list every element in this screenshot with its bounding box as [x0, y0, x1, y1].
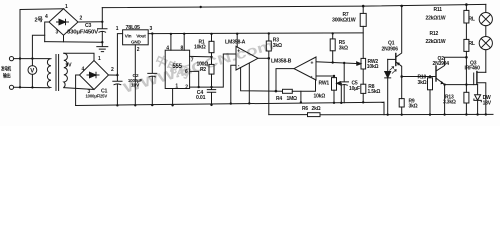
wire 555 pin2/6 node to opamp A input [199, 54, 236, 87]
resistor R12 22k/1W [464, 39, 469, 51]
svg-text:1: 1 [175, 84, 178, 90]
wire bridge2 pin2 to C1 node [109, 74, 118, 76]
capacitor C4 0.01 [207, 87, 215, 105]
svg-text:R12: R12 [430, 31, 439, 37]
resistor R3 3k [266, 41, 271, 51]
diode inside bridge2 [87, 72, 99, 78]
svg-text:3.3kΩ: 3.3kΩ [443, 100, 456, 106]
svg-text:6: 6 [185, 69, 188, 75]
transformer T1 secondary [64, 53, 68, 87]
opamp A V- stub [248, 63, 250, 103]
svg-text:4: 4 [45, 14, 48, 20]
wire opamp A output [258, 57, 269, 59]
capacitor C3 330uF/450V [98, 22, 108, 42]
op-amp U1A LM358-A [236, 46, 258, 70]
wire opamp A lower input to ground [231, 65, 236, 103]
svg-text:2N3906: 2N3906 [382, 46, 399, 52]
wire voltmeter bottom [31, 74, 33, 87]
ground rail upper [76, 102, 384, 105]
opamp A V+ stub [236, 34, 238, 47]
svg-text:1000μF/25V: 1000μF/25V [86, 93, 108, 99]
svg-text:RW1: RW1 [319, 80, 330, 86]
svg-text:555: 555 [172, 64, 182, 70]
svg-text:2: 2 [137, 47, 140, 53]
R6 loop lower wire left [269, 114, 308, 116]
wire x20 vertical to bridge1 [20, 9, 64, 88]
op-amp U1B LM358-B (points left) [294, 57, 316, 80]
voltmeter V [28, 66, 37, 75]
svg-text:10kΩ: 10kΩ [194, 44, 206, 50]
svg-text:10V: 10V [131, 82, 140, 88]
capacitor C1 1000uF/25V [113, 74, 122, 106]
svg-text:10μF: 10μF [349, 86, 360, 92]
svg-text:R11: R11 [434, 7, 443, 13]
Q1 base wire [388, 58, 396, 60]
feedback line to R4 [241, 68, 283, 92]
svg-text:+: + [311, 60, 314, 66]
svg-text:1: 1 [65, 4, 68, 10]
svg-text:V: V [30, 68, 34, 74]
junction dots x20 [19, 57, 21, 59]
svg-text:10kΩ: 10kΩ [367, 64, 379, 70]
arrowhead into RW2 [357, 62, 361, 65]
regulator U2 78L05 [123, 30, 149, 45]
resistor R4 1M [283, 89, 293, 93]
svg-text:22kΩ/1W: 22kΩ/1W [426, 15, 446, 21]
wire opamp B upper input to RW2 wiper [316, 62, 358, 64]
svg-text:2: 2 [185, 84, 188, 90]
svg-text:C2: C2 [133, 73, 139, 79]
svg-text:LM358-B: LM358-B [271, 59, 292, 65]
resistor R10 3k [428, 78, 433, 90]
Q3 source tap [477, 83, 486, 115]
svg-text:LM358-A: LM358-A [225, 39, 246, 45]
wire zigzag bridge1 AC2 to top terminal [32, 35, 44, 58]
ground symbol [97, 42, 108, 51]
top rail [102, 4, 486, 7]
svg-text:RL: RL [469, 17, 475, 23]
transformer T1 primary [47, 59, 51, 88]
svg-text:2: 2 [80, 15, 83, 21]
svg-text:2kΩ: 2kΩ [312, 106, 321, 112]
svg-text:300kΩ/1W: 300kΩ/1W [332, 18, 356, 24]
Q3 drain tap [477, 71, 486, 73]
bridge rectifier B2 [80, 61, 109, 90]
svg-text:R2: R2 [200, 67, 206, 73]
svg-text:+: + [237, 49, 240, 55]
ground rail step down [383, 102, 385, 114]
terminal J1 generator output + [9, 57, 13, 61]
wire top terminal [14, 58, 50, 60]
resistor R6 2k [308, 113, 321, 117]
wire secondary top to bridge2 [64, 53, 94, 60]
resistor R5 3k [330, 39, 335, 51]
svg-text:1.5kΩ: 1.5kΩ [368, 89, 381, 95]
svg-text:IRF460: IRF460 [465, 66, 481, 72]
svg-text:2号: 2号 [35, 15, 44, 23]
wire opamp A output down to R6 loop [268, 58, 270, 114]
resistor R2 100 [209, 64, 214, 74]
wire secondary bottom to bridge2 pin3 [64, 88, 94, 90]
lamp RL2 [485, 26, 487, 37]
resistor R9 3k [399, 99, 404, 107]
svg-text:4: 4 [166, 45, 169, 51]
svg-text:10kΩ: 10kΩ [314, 93, 326, 99]
svg-text:2: 2 [111, 67, 114, 73]
wire bridge1 pin3 stub [63, 35, 65, 42]
svg-text:R4: R4 [276, 96, 282, 102]
Q3 gate bar [473, 73, 475, 85]
svg-text:3kΩ: 3kΩ [418, 80, 427, 86]
wire 78L05 pin2 to ground [134, 45, 136, 106]
svg-text:330μF/450V: 330μF/450V [67, 30, 99, 36]
wire Q1 emitter node to Q2 base [402, 76, 436, 78]
svg-text:7: 7 [191, 57, 194, 63]
Q1 base bar [395, 54, 397, 66]
timer U3 555 [165, 50, 189, 88]
svg-text:发电机: 发电机 [0, 66, 11, 73]
LED D1 [385, 59, 391, 114]
555 pin2 wire [190, 86, 199, 88]
Q2 collector diag + up to R12 node [436, 57, 466, 71]
LED arrows [390, 67, 397, 74]
ground rail lower right [384, 113, 493, 115]
resistor R8 1.5k [361, 84, 366, 93]
svg-text:3kΩ: 3kΩ [339, 45, 348, 51]
555 pin8 stub [183, 34, 185, 50]
svg-text:0.01: 0.01 [196, 95, 206, 101]
svg-text:9V: 9V [66, 63, 73, 69]
wire bridge2 pin4 to ground rail [76, 75, 80, 105]
svg-text:R6: R6 [302, 106, 308, 112]
RW1 wiper [338, 83, 341, 103]
Q1 collector diag + up [396, 6, 402, 57]
svg-text:1: 1 [116, 26, 119, 32]
wire bottom terminal [14, 86, 50, 88]
svg-text:GND: GND [131, 40, 141, 45]
diode inside bridge1 [57, 19, 69, 25]
svg-text:C3: C3 [85, 23, 92, 29]
svg-text:RL: RL [469, 41, 475, 47]
resistor R7 300k/1W [360, 13, 366, 26]
svg-text:18V: 18V [483, 100, 492, 106]
resistor R1 10k [209, 41, 214, 52]
wire C3 node up to top rail [101, 8, 103, 22]
capacitor C2 1000uF/10V [148, 34, 157, 106]
555 pin1 stub to ground [172, 89, 174, 106]
Q2 emitter diag + down [436, 78, 445, 115]
svg-text:3kΩ: 3kΩ [409, 104, 418, 110]
svg-text:3kΩ: 3kΩ [273, 43, 282, 49]
svg-text:4: 4 [82, 67, 85, 73]
wire C1 node up to 78L05 pin1 [117, 34, 122, 76]
wire voltmeter top [31, 59, 33, 66]
555 pin4 stub [170, 34, 172, 50]
gate wire Q2 emitter node to Q3 gate and DW [445, 84, 478, 86]
bridge rectifier 2号 (bridge1) [49, 9, 78, 36]
Q3 channel bar [476, 72, 478, 84]
svg-text:3: 3 [56, 30, 59, 36]
555 pin7 wire [190, 55, 212, 58]
capacitor C5 10uF [340, 63, 349, 103]
svg-text:78L05: 78L05 [126, 25, 140, 31]
wire opamp B lower input [316, 75, 334, 77]
transformer core [56, 55, 59, 91]
wire y41.6 to C3 ground node [45, 41, 103, 44]
Q2 base bar [435, 66, 437, 81]
stub R4 line to ground [300, 91, 302, 102]
resistor R13 3.3k [464, 92, 469, 103]
svg-text:8: 8 [181, 45, 184, 51]
zener DW 18V [474, 85, 481, 115]
wire bridge1 pin2 to C3 node [78, 21, 102, 23]
potentiometer RW1 10k [332, 78, 337, 91]
terminal J2 generator output - [9, 85, 13, 89]
svg-text:1MΩ: 1MΩ [287, 96, 298, 102]
+5V rail from 78L05 pin3 [148, 32, 363, 35]
potentiometer RW2 10k [361, 58, 366, 69]
wire lamp RL2 to Q3 drain [485, 50, 487, 73]
wire bridge1 pin4 drop [45, 22, 49, 42]
Q1 emitter diag with arrow [396, 62, 402, 77]
svg-text:输出: 输出 [3, 73, 11, 80]
svg-text:1: 1 [98, 56, 101, 62]
resistor R11 22k/1W [464, 10, 469, 23]
svg-text:2N3904: 2N3904 [433, 61, 450, 67]
lamp RL1 [485, 4, 487, 12]
svg-text:3: 3 [150, 26, 153, 32]
555 pin6 wire [190, 71, 199, 87]
wire opamp B output to R4 [276, 69, 294, 92]
svg-text:22kΩ/1W: 22kΩ/1W [426, 39, 446, 45]
